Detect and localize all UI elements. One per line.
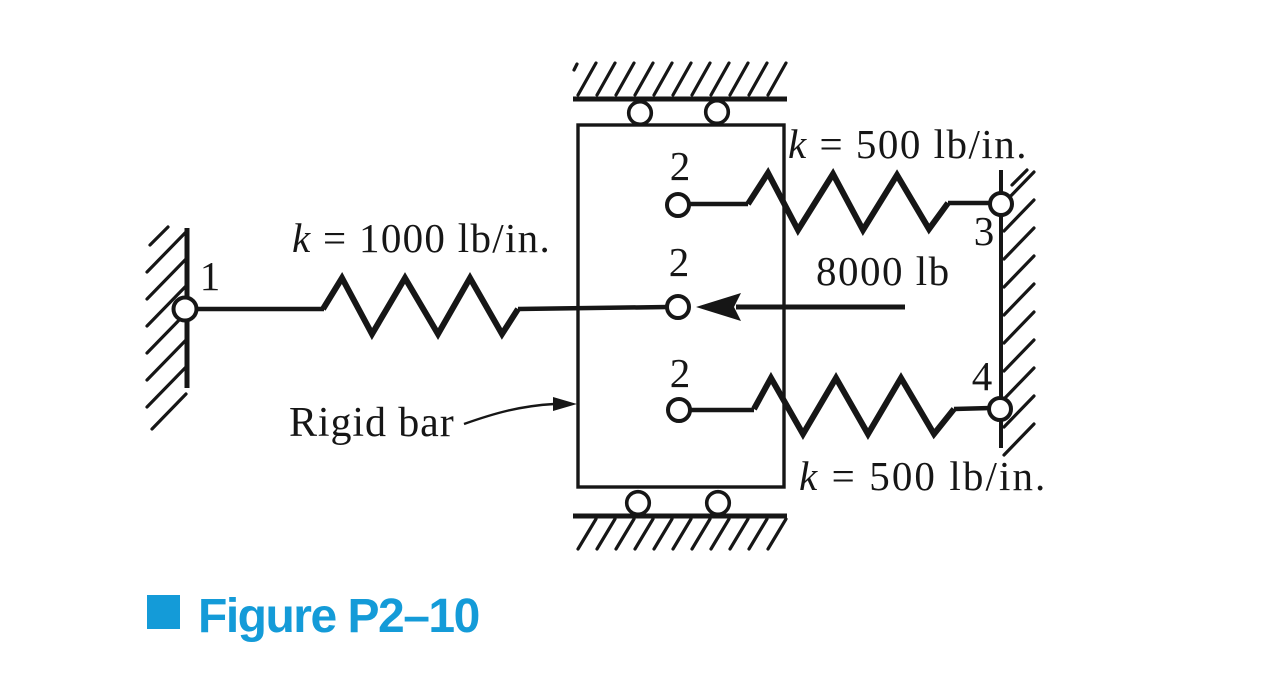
rigid bar rectangle [578,125,784,487]
wire node1 to spring1 [196,307,324,312]
svg-text:2: 2 [670,143,691,189]
leader arrow to rigid bar [464,404,554,424]
spring k=500 bottom zigzag (element 3) [754,378,954,434]
right wall line [999,170,1003,448]
wire spring1 to node2 middle [518,307,668,309]
svg-text:Rigid bar: Rigid bar [289,400,455,446]
node 2 top [667,194,689,216]
svg-text:Figure P2–10: Figure P2–10 [198,590,479,643]
ceiling support surface line [573,97,787,102]
force arrow shaft [736,305,905,310]
spring k=500 top zigzag (element 2) [748,173,948,230]
node 1 [174,298,197,321]
node 4 [989,398,1011,420]
svg-text:3: 3 [974,208,995,254]
node 2 bottom [668,399,690,421]
svg-text:k = 500 lb/in.: k = 500 lb/in. [799,453,1047,499]
figure caption marker [147,595,180,629]
right wall hatching [1004,170,1034,455]
svg-text:2: 2 [670,350,691,396]
spring k=1000 zigzag (element 1) [323,278,518,334]
wire node2bottom to spring3 [690,408,754,413]
wire spring2 to node3 [948,201,992,206]
ceiling support hatching [574,63,786,95]
wire node2top to spring2 [689,202,748,207]
roller top right [706,101,729,124]
roller bottom right [707,492,730,515]
svg-text:2: 2 [669,239,690,285]
svg-text:k = 500 lb/in.: k = 500 lb/in. [788,121,1028,167]
svg-text:4: 4 [972,353,993,399]
node 3 [990,193,1012,215]
svg-text:k = 1000 lb/in.: k = 1000 lb/in. [292,215,551,261]
left wall hatching [147,227,186,429]
floor support surface line [573,514,787,519]
roller bottom left [627,492,650,515]
roller top left [629,102,652,125]
svg-text:8000 lb: 8000 lb [816,248,951,294]
svg-text:1: 1 [200,253,221,299]
node 2 middle [667,296,689,318]
floor hatching [578,519,786,549]
wire spring3 to node4 [954,408,991,409]
force arrowhead [696,293,741,321]
left wall line [185,228,190,388]
